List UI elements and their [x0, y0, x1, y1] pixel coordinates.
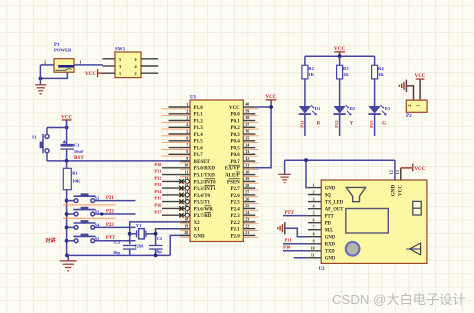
- svg-text:G: G: [382, 121, 386, 126]
- net label PTT: [106, 236, 116, 241]
- capacitor C3 30p: [113, 240, 137, 255]
- LED D1: [299, 105, 321, 116]
- wire R2 to D1: [304, 79, 306, 106]
- wire R3 to D2: [339, 79, 341, 106]
- svg-text:R3: R3: [343, 66, 349, 71]
- wire P1 pin3 to ground: [40, 72, 67, 78]
- wire U2 PTT: [283, 215, 308, 217]
- wire P11: [304, 114, 306, 136]
- svg-text:P1.2: P1.2: [194, 119, 204, 124]
- svg-text:2: 2: [407, 104, 412, 106]
- U1 pin 33 (P0.6): [230, 149, 258, 158]
- svg-text:GND: GND: [325, 236, 336, 241]
- U1 pin 38 (P0.1): [230, 115, 258, 124]
- svg-text:P30: P30: [283, 245, 291, 250]
- wire U1 GND to rail: [170, 235, 190, 255]
- wire X1 net: [156, 229, 190, 245]
- svg-text:4: 4: [313, 205, 315, 209]
- U2 microphone circle: [346, 242, 360, 256]
- U1 pin 1 (P1.0): [162, 102, 204, 111]
- svg-text:P3.3/INT1: P3.3/INT1: [194, 187, 217, 192]
- orange mark: [63, 204, 116, 206]
- svg-text:12: 12: [184, 176, 188, 181]
- connector P1 POWER (DC power jack): [54, 43, 74, 72]
- junction: [65, 212, 69, 216]
- svg-text:13: 13: [395, 170, 400, 174]
- wire VCC to pin40 and EA/VP: [255, 107, 271, 168]
- pushbutton S4: [67, 220, 100, 229]
- U1 pin 16 (P3.6/WR): [154, 203, 213, 213]
- svg-text:3: 3: [313, 197, 315, 201]
- U2 internal GND VCC labels: [391, 184, 404, 196]
- svg-text:13: 13: [184, 183, 188, 188]
- resistor R2 1K: [302, 56, 315, 79]
- svg-text:1: 1: [119, 71, 121, 76]
- svg-text:P1.0: P1.0: [194, 106, 204, 111]
- pushbutton S3: [67, 207, 100, 216]
- svg-text:对讲: 对讲: [45, 236, 56, 244]
- junction: [65, 126, 69, 130]
- U1 pin 18 (X2): [180, 217, 200, 226]
- svg-text:6: 6: [186, 136, 188, 141]
- svg-text:38: 38: [245, 115, 249, 120]
- U1 pin 28 (P2.7): [230, 183, 258, 192]
- svg-text:1: 1: [416, 104, 421, 106]
- svg-text:P2.3: P2.3: [230, 214, 240, 219]
- connector P2: [406, 100, 427, 119]
- svg-text:5: 5: [313, 212, 315, 216]
- svg-text:22: 22: [245, 223, 249, 228]
- svg-text:GND: GND: [325, 257, 336, 262]
- svg-text:40: 40: [245, 102, 249, 107]
- svg-text:SQ: SQ: [325, 193, 332, 198]
- svg-text:P1.3: P1.3: [194, 126, 204, 131]
- svg-text:31: 31: [245, 163, 249, 168]
- wire P21: [95, 200, 136, 202]
- U2 pin 4 (AF_OUT): [308, 205, 344, 213]
- svg-text:EA/VP: EA/VP: [225, 167, 240, 172]
- power port VCC at SW1 pin 1: [85, 69, 103, 77]
- U1 pin 29 (PSEN): [227, 176, 259, 185]
- svg-text:4: 4: [186, 122, 188, 127]
- junction: [304, 158, 308, 162]
- U1 pin 13 (P3.3/INT1): [154, 182, 216, 192]
- svg-text:P3.1/TXD: P3.1/TXD: [194, 174, 216, 179]
- svg-text:X2: X2: [194, 221, 201, 226]
- junction: [65, 226, 69, 230]
- U2 pin header icon: [413, 201, 421, 215]
- U1 pin 37 (P0.2): [230, 122, 258, 131]
- svg-text:P31: P31: [154, 169, 161, 174]
- svg-text:VCC: VCC: [415, 74, 426, 79]
- junction: [65, 159, 69, 163]
- junction: [154, 254, 158, 258]
- P1 pin 1: [74, 59, 103, 65]
- wire LED rail: [305, 55, 375, 57]
- net label P30: [283, 245, 291, 250]
- svg-text:VCC: VCC: [398, 185, 404, 196]
- svg-text:37: 37: [245, 122, 249, 127]
- U1 pin 31 (EA/VP): [225, 163, 259, 172]
- svg-text:19: 19: [184, 224, 188, 229]
- svg-text:P0.2: P0.2: [230, 126, 240, 131]
- svg-text:U2: U2: [318, 267, 325, 272]
- U1 pin 27 (P2.6): [230, 190, 258, 199]
- svg-text:S1: S1: [32, 134, 38, 139]
- svg-text:11: 11: [311, 254, 315, 258]
- wire S1 to RST: [46, 153, 48, 161]
- junction: [128, 232, 132, 236]
- svg-text:P3.0/RXD: P3.0/RXD: [194, 167, 216, 172]
- junction: [65, 239, 69, 243]
- svg-text:P2.1: P2.1: [230, 228, 240, 233]
- P1 pin 2: [40, 59, 54, 65]
- svg-text:TXD: TXD: [325, 250, 336, 255]
- svg-text:R: R: [317, 121, 321, 126]
- svg-text:PTT: PTT: [325, 215, 335, 220]
- svg-text:6: 6: [135, 57, 137, 62]
- svg-text:27: 27: [245, 190, 249, 195]
- svg-text:P1.7: P1.7: [194, 153, 204, 158]
- net label P22: [106, 209, 114, 214]
- svg-text:23: 23: [245, 217, 249, 222]
- U1 pin 14 (P3.4/T0): [154, 189, 210, 199]
- svg-text:P0.5: P0.5: [230, 147, 240, 152]
- U1 pin 5 (P1.4): [162, 129, 204, 138]
- crystal Y1 12M: [130, 223, 156, 248]
- U2 pin 10 (TXD): [308, 247, 335, 255]
- svg-text:20: 20: [184, 230, 188, 235]
- svg-text:VCC: VCC: [85, 71, 96, 77]
- svg-text:C2: C2: [157, 236, 163, 241]
- svg-text:P12: P12: [334, 120, 339, 128]
- svg-text:P37: P37: [154, 209, 162, 214]
- U1 pin 4 (P1.3): [162, 122, 204, 131]
- svg-text:10uF: 10uF: [74, 149, 84, 154]
- svg-text:12: 12: [388, 170, 393, 174]
- power port VCC at U2 pin 13: [401, 164, 426, 173]
- svg-text:7: 7: [313, 226, 315, 230]
- svg-text:1: 1: [80, 59, 82, 64]
- wire P22: [95, 213, 136, 215]
- svg-text:6: 6: [313, 219, 315, 223]
- junction: [39, 77, 43, 81]
- pushbutton S5: [67, 234, 100, 243]
- U2 pin 8 (GND): [308, 233, 336, 241]
- svg-text:RXD: RXD: [325, 243, 336, 248]
- svg-text:Y1: Y1: [136, 223, 142, 228]
- U2 antenna icon: [406, 243, 420, 256]
- svg-text:33: 33: [245, 149, 249, 154]
- U1 pin 25 (P2.4): [230, 203, 258, 212]
- U2 pin 9 (RXD): [308, 240, 336, 248]
- svg-text:5: 5: [186, 129, 188, 134]
- svg-text:C3: C3: [114, 240, 120, 245]
- svg-text:26: 26: [245, 196, 249, 201]
- svg-text:P2.7: P2.7: [230, 187, 240, 192]
- svg-text:8: 8: [186, 149, 188, 154]
- svg-text:TX_LED: TX_LED: [325, 200, 344, 205]
- U1 pin 11 (P3.1/TXD): [154, 169, 215, 179]
- svg-text:C1: C1: [74, 142, 80, 147]
- svg-text:P0.7: P0.7: [230, 160, 240, 165]
- svg-text:36: 36: [245, 129, 249, 134]
- svg-text:P23: P23: [106, 223, 114, 228]
- wire R4 to D3: [374, 79, 376, 106]
- svg-text:P30: P30: [154, 162, 162, 167]
- svg-text:30: 30: [245, 169, 249, 174]
- U1 pin 24 (P2.3): [230, 210, 258, 219]
- net label P31: [285, 238, 293, 243]
- svg-text:AF_OUT: AF_OUT: [325, 208, 345, 213]
- svg-text:P32: P32: [154, 176, 161, 181]
- svg-text:GND: GND: [391, 184, 397, 196]
- junction: [100, 212, 103, 215]
- svg-text:P1.4: P1.4: [194, 133, 204, 138]
- switch SW1 (DIP switch block): [103, 48, 159, 78]
- svg-text:Y: Y: [350, 121, 354, 126]
- U1 pin 9 (RESET): [180, 156, 210, 165]
- U1 pin 40 (VCC): [229, 102, 259, 111]
- switch S1 (reset button): [32, 134, 49, 153]
- U1 pin 8 (P1.7): [162, 149, 204, 158]
- U2 pin 11 (GND): [308, 254, 336, 262]
- svg-text:1K: 1K: [308, 72, 314, 77]
- svg-text:P2.0: P2.0: [230, 234, 240, 239]
- net label RST: [74, 156, 84, 161]
- wire PTT: [95, 240, 136, 242]
- power port VCC at P2: [415, 74, 426, 100]
- svg-text:30p: 30p: [155, 249, 163, 254]
- wire P12: [339, 114, 341, 136]
- svg-text:P1.6: P1.6: [194, 147, 204, 152]
- svg-text:1K: 1K: [343, 72, 349, 77]
- U1 pin 23 (P2.2): [230, 217, 258, 226]
- svg-text:P0.1: P0.1: [230, 119, 240, 124]
- junction: [154, 232, 158, 236]
- svg-text:25: 25: [245, 203, 249, 208]
- svg-text:16: 16: [184, 203, 188, 208]
- svg-text:GND: GND: [325, 186, 336, 191]
- net label P11: [299, 120, 304, 128]
- IC U2 (wireless intercom module): [318, 180, 427, 272]
- svg-text:P34: P34: [154, 189, 162, 194]
- svg-text:PSEN: PSEN: [227, 180, 240, 185]
- U2 pin 5 (PTT): [308, 212, 335, 220]
- U2 pin 6 (PD): [308, 219, 332, 227]
- U1 pin 36 (P0.3): [230, 129, 258, 138]
- U1 pin 20 (GND): [180, 230, 205, 239]
- svg-text:2: 2: [186, 109, 188, 114]
- svg-text:PTT: PTT: [285, 211, 295, 216]
- svg-text:28: 28: [245, 183, 249, 188]
- svg-text:1: 1: [313, 183, 315, 187]
- U2 internal rectangle: [346, 209, 389, 234]
- wire P1 pin2 down: [39, 65, 41, 84]
- junction: [65, 254, 69, 258]
- svg-text:RESET: RESET: [194, 160, 211, 165]
- U1 pin 7 (P1.6): [162, 142, 204, 151]
- svg-text:ALE/P: ALE/P: [225, 174, 240, 179]
- power port VCC LED rail: [334, 46, 345, 56]
- resistor R1 10K: [63, 161, 80, 190]
- U1 pin 30 (ALE/P): [225, 169, 259, 178]
- U1 pin 39 (P0.0): [230, 109, 258, 118]
- U1 pin 12 (P3.2/INT0): [154, 176, 216, 186]
- wire VCC to S1: [47, 128, 67, 135]
- junction: [269, 105, 273, 109]
- U2 pin 3 (TX_LED): [308, 197, 344, 205]
- svg-text:P36: P36: [154, 203, 162, 208]
- svg-text:21: 21: [245, 230, 249, 235]
- U1 pin 32 (P0.7): [230, 156, 258, 165]
- U1 pin 10 (P3.0/RXD): [154, 162, 215, 172]
- svg-text:P3.2/INT0: P3.2/INT0: [194, 180, 217, 185]
- LED D2: [333, 105, 355, 116]
- svg-text:P3.6/WR: P3.6/WR: [194, 207, 214, 212]
- svg-text:CSDN @大白电子设计: CSDN @大白电子设计: [332, 292, 466, 307]
- ground bottom-left: [60, 255, 77, 270]
- wire to U2 pin 1: [306, 160, 308, 187]
- resistor R4 1K: [372, 56, 385, 79]
- label intercom text: [45, 236, 56, 244]
- wire RST net: [47, 160, 190, 162]
- svg-text:32: 32: [245, 156, 249, 161]
- IC U1 (AT89C51 microcontroller): [190, 95, 243, 241]
- ground below P1: [35, 85, 46, 94]
- svg-text:POWER: POWER: [54, 47, 72, 52]
- net label P23: [106, 223, 114, 228]
- svg-text:34: 34: [245, 142, 249, 147]
- wire U2 pin 11 GND: [294, 257, 308, 259]
- svg-text:39: 39: [245, 109, 249, 114]
- svg-text:3: 3: [119, 64, 121, 69]
- LED D3: [368, 105, 390, 116]
- svg-text:P35: P35: [154, 196, 162, 201]
- svg-text:P2.2: P2.2: [230, 221, 240, 226]
- svg-text:2: 2: [135, 71, 137, 76]
- svg-text:P13: P13: [369, 120, 374, 128]
- wire GND net to U2: [285, 159, 395, 161]
- svg-text:P0.4: P0.4: [230, 140, 240, 145]
- svg-text:24: 24: [245, 210, 249, 215]
- svg-text:10: 10: [311, 247, 315, 251]
- resistor R3 1K: [337, 56, 350, 79]
- svg-text:P11: P11: [299, 120, 304, 128]
- svg-text:D1: D1: [315, 106, 321, 111]
- ground at U2 net: [278, 160, 290, 183]
- svg-text:2: 2: [44, 59, 46, 64]
- U1 pin 34 (P0.5): [230, 142, 258, 151]
- U1 pin 26 (P2.5): [230, 196, 258, 205]
- svg-text:P3.5/T1: P3.5/T1: [194, 201, 211, 206]
- wire P23: [95, 226, 136, 228]
- U1 pin 22 (P2.1): [230, 223, 258, 232]
- svg-text:18: 18: [184, 217, 188, 222]
- svg-text:P2: P2: [406, 114, 412, 119]
- svg-text:PD: PD: [325, 222, 332, 227]
- U1 pin 21 (P2.0): [230, 230, 258, 239]
- label Y: [350, 121, 354, 126]
- svg-text:1K: 1K: [378, 72, 384, 77]
- U1 pin 15 (P3.5/T1): [154, 196, 210, 206]
- power port VCC reset circuit: [61, 114, 72, 127]
- svg-text:3: 3: [186, 115, 188, 120]
- svg-text:P31: P31: [285, 238, 293, 243]
- svg-text:P0.0: P0.0: [230, 113, 240, 118]
- wire P13: [374, 114, 376, 136]
- svg-text:7: 7: [186, 142, 188, 147]
- svg-text:P2.6: P2.6: [230, 194, 240, 199]
- U1 pin 6 (P1.5): [162, 136, 204, 145]
- svg-text:2: 2: [313, 190, 315, 194]
- U1 pin 2 (P1.1): [162, 109, 204, 118]
- label G: [382, 121, 386, 126]
- svg-text:P33: P33: [154, 182, 162, 187]
- svg-text:11: 11: [185, 169, 189, 174]
- wire U2 TXD: [283, 250, 308, 252]
- svg-text:P21: P21: [106, 196, 114, 201]
- svg-text:VCC: VCC: [229, 106, 240, 111]
- svg-text:P3.7/RD: P3.7/RD: [194, 214, 212, 219]
- svg-text:P0.6: P0.6: [230, 153, 240, 158]
- net label P12: [334, 120, 339, 128]
- svg-text:15: 15: [184, 196, 188, 201]
- wire ground rail: [67, 254, 171, 256]
- svg-text:M.L: M.L: [325, 229, 334, 234]
- watermark: [332, 292, 466, 307]
- pushbutton S2: [67, 193, 100, 202]
- U1 pin 35 (P0.4): [230, 136, 258, 145]
- label R: [317, 121, 321, 126]
- svg-text:D2: D2: [350, 106, 356, 111]
- svg-text:R2: R2: [308, 66, 314, 71]
- svg-text:9: 9: [186, 156, 188, 161]
- svg-text:1: 1: [186, 102, 188, 107]
- svg-text:P2.5: P2.5: [230, 201, 240, 206]
- svg-text:R1: R1: [72, 171, 78, 176]
- svg-text:R4: R4: [378, 66, 384, 71]
- U1 pin 19 (X1): [180, 224, 200, 233]
- wire X2 net: [130, 222, 190, 244]
- svg-text:30p: 30p: [113, 250, 121, 255]
- U1 pin 3 (P1.2): [162, 115, 204, 124]
- svg-text:5: 5: [119, 57, 121, 62]
- capacitor C1 10uF: [60, 121, 84, 161]
- svg-text:P22: P22: [106, 209, 114, 214]
- svg-text:VCC: VCC: [414, 167, 425, 172]
- svg-text:10: 10: [184, 163, 188, 168]
- U2 pin 1 (GND): [308, 183, 336, 191]
- wire button rail: [66, 190, 68, 256]
- svg-text:17: 17: [184, 210, 188, 215]
- U2 pin 7 (M.L): [308, 226, 334, 234]
- svg-text:P1.5: P1.5: [194, 140, 204, 145]
- power ground at U2 pin 8: [278, 222, 308, 237]
- junction: [338, 54, 342, 58]
- svg-text:35: 35: [245, 136, 249, 141]
- svg-text:9: 9: [313, 240, 315, 244]
- orange mark: [63, 217, 116, 219]
- svg-text:P0.3: P0.3: [230, 133, 240, 138]
- U2 speaker icon: [346, 187, 365, 201]
- svg-text:X1: X1: [194, 228, 201, 233]
- U2 pin 12 (GND): [388, 160, 395, 180]
- power port VCC at U1 pin 40: [265, 94, 276, 107]
- U2 pin 2 (SQ): [308, 190, 331, 198]
- svg-text:10K: 10K: [72, 179, 81, 184]
- svg-text:D3: D3: [385, 106, 391, 111]
